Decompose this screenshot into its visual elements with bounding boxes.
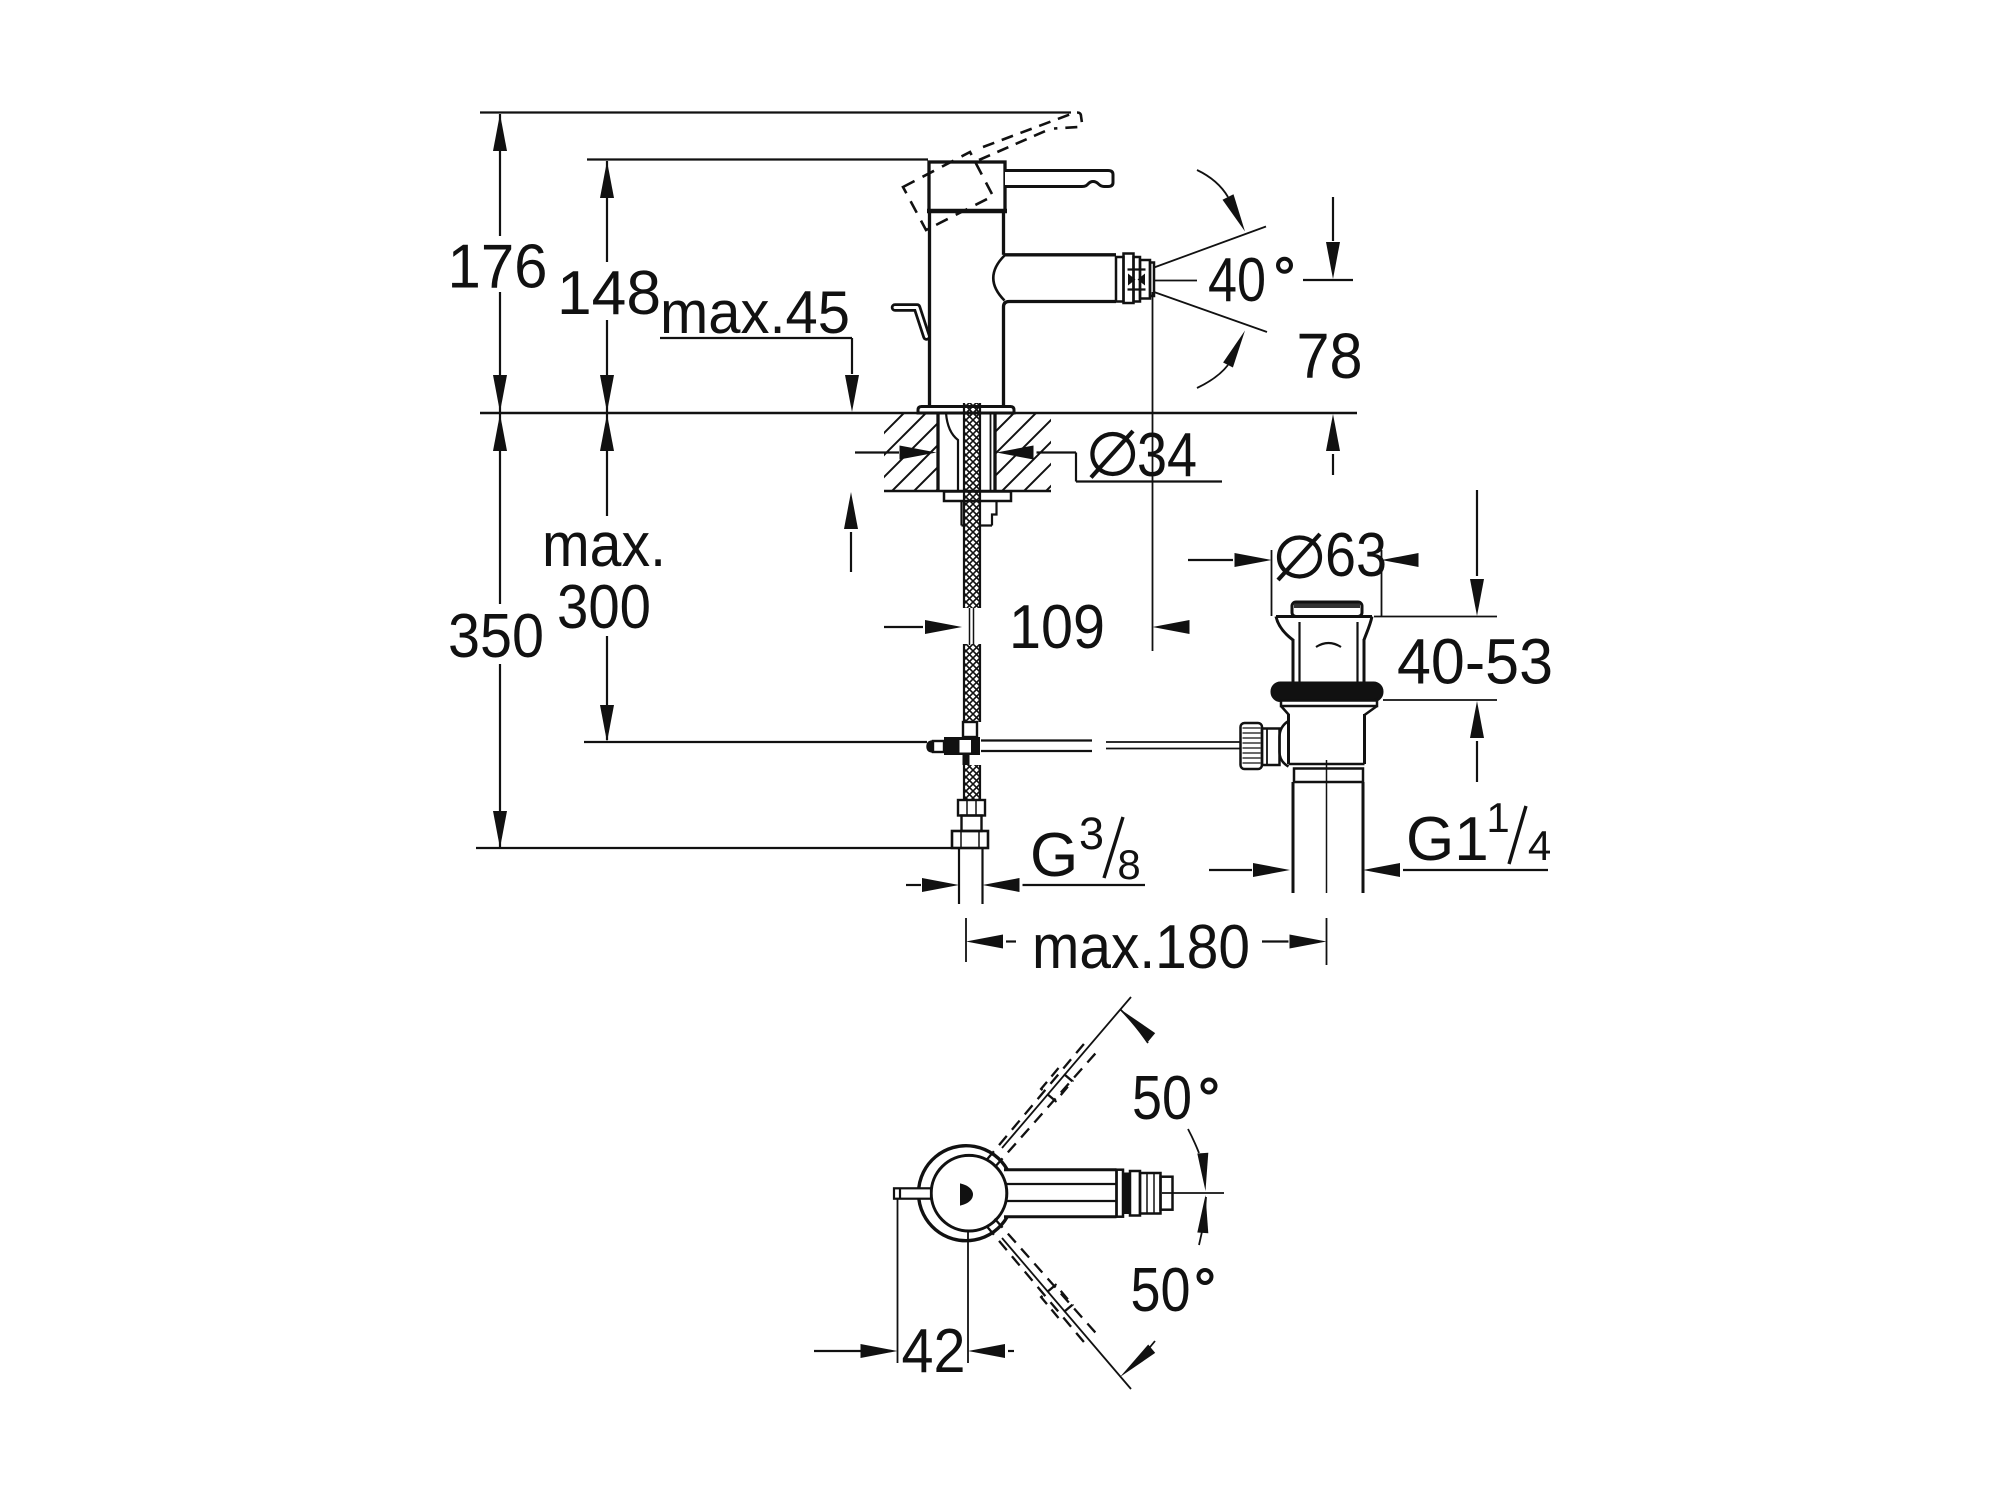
dim G3/8 arrow right: [922, 878, 959, 892]
spray upper ray: [1154, 227, 1266, 268]
dim 78 vertical line: [1332, 197, 1334, 241]
mounting shank right wall: [993, 413, 996, 491]
hose break gap lines: [969, 608, 971, 645]
dim max.180 line: [966, 935, 1003, 949]
svg-text:300: 300: [557, 573, 651, 642]
pop-up knob (side view): [895, 308, 927, 337]
base flange: [918, 407, 1014, 414]
extension line at pop-up rod level: [584, 741, 927, 743]
dim 109 arrow left: [1153, 620, 1190, 634]
dim 109 line left: [884, 626, 923, 628]
drain valve top flange: [1276, 617, 1372, 641]
top view handle pin: [894, 1188, 931, 1198]
svg-text:78: 78: [1297, 320, 1363, 392]
dim O34 arrow left: [997, 446, 1034, 460]
dashed lever (tilted handle): [979, 129, 1050, 160]
top view spout body: [1004, 1168, 1117, 1171]
svg-text:350: 350: [448, 602, 544, 671]
top view center pin mark: [961, 1184, 973, 1205]
top view inner circle: [931, 1155, 1007, 1231]
dim O63 arrow left: [1382, 553, 1419, 567]
dim 40-53 extension lines: [1374, 616, 1497, 618]
dim O63 arrow right: [1235, 553, 1272, 567]
top view nozzle: [1115, 1170, 1118, 1217]
drain valve knob collar: [1262, 729, 1280, 766]
hose nut G3/8: [952, 831, 988, 848]
svg-text:63: 63: [1325, 521, 1387, 590]
washer: [944, 492, 1011, 502]
aerator screen pattern: [1128, 274, 1136, 286]
pop-up horizontal rod: [981, 739, 1092, 741]
dim 109 arrow right: [925, 620, 962, 634]
lever handle: [1005, 171, 1113, 187]
extension line at hose end level: [476, 847, 951, 849]
dim 40-53 arrow down: [1470, 579, 1484, 616]
hose nipple: [962, 501, 997, 526]
spray mid ray: [1155, 280, 1197, 282]
dim G3/8 arrow left: [983, 878, 1020, 892]
svg-text:1: 1: [1486, 794, 1509, 841]
dim 176 vertical line: [499, 114, 501, 236]
svg-text:G1: G1: [1406, 805, 1489, 874]
deck bottom line: [884, 490, 1051, 493]
drain valve o-ring: [1272, 683, 1382, 701]
dim O34 leader: [1037, 451, 1077, 453]
drain valve taper: [1281, 706, 1289, 715]
svg-text:50: 50: [1132, 1064, 1192, 1133]
svg-text:176: 176: [448, 233, 548, 302]
braided hose upper segment: [964, 403, 980, 608]
faucet body right edge upper: [1002, 211, 1005, 255]
drain centerline extension: [1326, 918, 1328, 965]
dim G1 1/4 arrow left: [1363, 863, 1400, 877]
top view centerline right: [1162, 1192, 1224, 1194]
lower phantom handle dashed: [986, 1226, 1085, 1344]
mounting shank left wall: [936, 413, 939, 491]
aerator ring 2: [1124, 254, 1134, 304]
dim 350 arrow up: [493, 414, 507, 451]
dim 78 level mark: [1303, 279, 1353, 281]
aerator ring 4: [1140, 260, 1150, 299]
dashed cap (tilted handle base): [903, 152, 993, 230]
dim 148 vertical line: [606, 161, 608, 262]
text O63: [1279, 538, 1320, 577]
dim 40-53 arrow up: [1470, 701, 1484, 738]
nozzle outlet extension line: [1152, 292, 1154, 651]
dim 78 arrow down: [1326, 242, 1340, 279]
dim 42 line: [814, 1350, 861, 1352]
drain valve knurled knob: [1241, 723, 1263, 769]
dim 78 lower arrow up: [1326, 414, 1340, 451]
faucet cap bottom edge: [927, 209, 1007, 214]
spout arm bottom edge: [1009, 300, 1116, 303]
drain valve push button: [1292, 602, 1362, 617]
svg-text:34: 34: [1137, 421, 1197, 490]
dim O34 arrow right: [900, 446, 937, 460]
drain valve centerline: [1326, 760, 1328, 893]
aerator ring 3: [1134, 257, 1141, 302]
faucet body right edge lower: [1004, 302, 1010, 407]
deck top line: [480, 412, 1357, 415]
dim 350 arrow down: [493, 811, 507, 848]
drain valve boss: [1280, 721, 1289, 767]
dim 40deg lower arc arrow: [1223, 331, 1245, 368]
dim 40deg lower arc: [1197, 365, 1228, 388]
svg-text:40: 40: [1208, 246, 1266, 315]
svg-text:40-53: 40-53: [1397, 626, 1553, 698]
mounting shank inner wall: [990, 413, 992, 491]
dim G3/8 line left: [906, 884, 921, 886]
spout arm top edge: [1004, 253, 1117, 256]
drain valve lower ring: [1294, 769, 1363, 783]
dim max.300 arrow down: [600, 705, 614, 742]
dim max.300 arrow up: [600, 414, 614, 451]
svg-text:3: 3: [1079, 808, 1104, 859]
upper 50deg ray: [1002, 997, 1131, 1148]
hose lower fitting: [958, 800, 985, 816]
aerator ring 1: [1116, 257, 1124, 302]
dim 40-53 vertical line: [1476, 490, 1478, 576]
aerator tip: [1150, 263, 1154, 297]
drain valve body: [1287, 714, 1290, 764]
dim 148 extension line: [587, 158, 928, 160]
lower 50deg arc: [1199, 1197, 1206, 1245]
top view outer circle: [919, 1146, 1008, 1241]
dim 148 arrow up: [600, 161, 614, 198]
dim 350 vertical line: [499, 414, 501, 604]
dim G1 1/4 arrow right: [1253, 863, 1290, 877]
dim 176 arrow up: [493, 114, 507, 151]
upper 50deg arc arrow at ray: [1120, 1009, 1155, 1042]
dim max.45 lower arrow up: [844, 492, 858, 529]
svg-text:max.45: max.45: [660, 279, 850, 346]
faucet body left edge: [928, 211, 931, 407]
upper 50deg arc arrow at centerline: [1197, 1153, 1208, 1191]
text O34: [1092, 434, 1133, 474]
dim O63 line left: [1188, 559, 1233, 561]
spout internal arc: [993, 256, 1004, 301]
braided hose middle segment: [964, 644, 980, 722]
drain valve neck: [1292, 639, 1295, 683]
spray lower ray: [1154, 292, 1267, 332]
G3/8 pipe lines: [958, 848, 960, 904]
svg-text:G: G: [1030, 821, 1078, 890]
dim O34 left line: [855, 451, 899, 453]
dim 176 arrow down: [493, 375, 507, 412]
braided hose lower segment: [964, 765, 980, 800]
upper 50deg arc: [1120, 1009, 1148, 1043]
svg-text:4: 4: [1528, 822, 1551, 869]
svg-text:109: 109: [1009, 593, 1105, 662]
drain valve collar: [1281, 701, 1377, 707]
svg-text:50: 50: [1131, 1256, 1191, 1325]
lower 50deg ray: [1002, 1238, 1131, 1389]
svg-text:42: 42: [902, 1317, 966, 1386]
dim max.45 arrow down: [845, 375, 859, 412]
hose ferrule at connector: [963, 722, 977, 737]
mounting shank funnel: [946, 413, 958, 490]
hose centerline extension: [965, 918, 967, 962]
svg-text:max.180: max.180: [1032, 913, 1250, 982]
svg-text:max.: max.: [542, 511, 666, 580]
lower 50deg arc arrow at ray: [1120, 1345, 1155, 1378]
lower 50deg arc arrow at centerline: [1197, 1195, 1208, 1233]
dim G1 1/4 line left: [1209, 869, 1252, 871]
dim 40deg upper arc: [1197, 170, 1228, 197]
svg-text:8: 8: [1117, 841, 1140, 888]
dim max.300 vertical line: [606, 414, 608, 516]
dim max.45 underline and leader: [660, 337, 852, 339]
dim O63 extension lines: [1271, 550, 1273, 616]
upper phantom handle dashed: [986, 1042, 1085, 1160]
dim 40deg upper arc arrow: [1223, 194, 1246, 231]
drain valve inner dome: [1316, 643, 1341, 647]
faucet cap: [929, 162, 1005, 211]
drain valve tailpipe: [1292, 782, 1295, 893]
dim 176 top extension line: [480, 111, 1071, 113]
dim 42 extension lines: [897, 1199, 899, 1363]
svg-text:148: 148: [557, 259, 661, 328]
deck hatching: [798, 407, 1152, 497]
pop-up rod connector: [944, 737, 980, 755]
dim 148 arrow down: [600, 375, 614, 412]
